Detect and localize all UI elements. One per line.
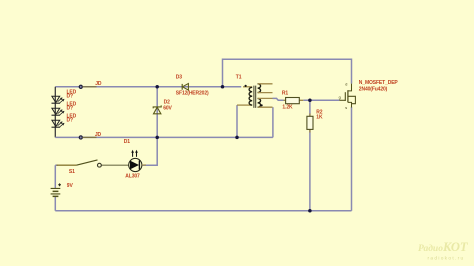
zener D2 60V (153, 105, 161, 113)
indicator LED D1 AL307 (124, 139, 146, 179)
T1 core (254, 86, 256, 108)
wire D1 branch (cross down to indicator row) (142, 137, 158, 165)
LED D? #1 (52, 96, 65, 103)
wire MOSFET source column (351, 107, 353, 211)
resistor R1 1.2K (282, 90, 303, 110)
junction dots (155, 85, 311, 213)
transformer T1 (236, 74, 273, 108)
T1 phase dot secondary (261, 104, 263, 106)
wire battery column (54, 165, 56, 211)
svg-text:60V: 60V (163, 105, 172, 111)
T1 secondary winding lower (258, 98, 261, 107)
svg-text:N_MOSFET_DEP: N_MOSFET_DEP (359, 80, 399, 86)
T1 secondary upper leads (258, 84, 273, 93)
wire R1 to gate node (303, 99, 339, 101)
node D3/T1/top-loop junction (221, 85, 225, 89)
svg-text:R1: R1 (282, 90, 288, 96)
LED D? #2 (52, 108, 65, 115)
wire LED chain vertical (dark component pins) (54, 87, 56, 138)
watermark RadioKot (418, 240, 469, 262)
MOSFET Q1 N_MOSFET_DEP 2N40(Fu420) (339, 84, 355, 108)
svg-text:s: s (345, 106, 347, 110)
svg-text:2N40(Fu420): 2N40(Fu420) (359, 87, 388, 93)
svg-text:D3: D3 (176, 75, 182, 81)
node T1 primary bottom junction (235, 136, 239, 140)
svg-text:T1: T1 (236, 74, 242, 80)
wire switch to D1 (olive pin run) (101, 164, 129, 166)
svg-text:JD: JD (95, 132, 102, 138)
svg-text:1K: 1K (316, 114, 323, 120)
svg-text:D?: D? (67, 94, 73, 100)
svg-text:9V: 9V (67, 183, 74, 189)
resistor R2 1K (307, 110, 323, 133)
svg-text:AL307: AL307 (125, 174, 140, 180)
diode D3 SF12(HER202) (182, 84, 188, 91)
svg-text:radiokot.ru: radiokot.ru (428, 256, 465, 262)
wire top loop (223, 59, 352, 87)
node gate/R1/R2 junction (308, 99, 312, 103)
wire top rail (LED anode rail to D3 to T1 primary top) (55, 86, 241, 88)
T1 primary lead bottom (237, 104, 252, 106)
wire zener D2 column (156, 87, 158, 138)
svg-text:g: g (339, 96, 341, 100)
wire T1 secondary to R1 (273, 98, 284, 100)
LED D? #3 (52, 120, 65, 127)
switch S1 (57, 160, 102, 175)
wire T1 secondary bottom column (272, 107, 274, 137)
svg-text:SF12(HER202): SF12(HER202) (176, 91, 209, 97)
wire R2 column (309, 100, 311, 211)
battery 9V (51, 183, 74, 197)
svg-text:S1: S1 (69, 169, 75, 175)
svg-text:JD: JD (95, 81, 102, 87)
T1 secondary winding upper (unconnected) (258, 84, 261, 93)
svg-text:d: d (345, 82, 347, 86)
wire bottom rail (55, 210, 351, 212)
T1 primary lead top (243, 86, 252, 88)
svg-text:D1: D1 (124, 139, 130, 145)
svg-text:D?: D? (67, 118, 73, 124)
T1 primary winding (249, 87, 252, 105)
node JD top terminal marker (79, 81, 102, 88)
T1 phase dot primary (245, 85, 247, 87)
node D2 top junction (155, 85, 159, 89)
svg-text:D?: D? (67, 106, 73, 112)
wire T1 primary bottom column (236, 105, 238, 137)
node D2 bottom cross junction (155, 136, 159, 140)
node R2 bottom rail junction (308, 209, 312, 213)
T1 secondary lower leads (258, 98, 273, 107)
svg-text:1.2K: 1.2K (282, 105, 293, 111)
wire mid rail (LED cathode rail) (55, 136, 273, 138)
node JD bottom terminal marker (79, 132, 101, 139)
wire battery top to switch pin (55, 164, 58, 166)
